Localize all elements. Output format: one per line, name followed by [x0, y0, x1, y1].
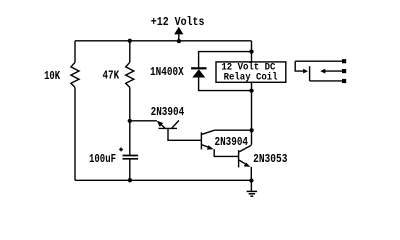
relay terminal square bottom: [342, 79, 346, 83]
svg-text:1N400X: 1N400X: [150, 65, 184, 79]
junction dot node A: [128, 119, 132, 123]
relay coil box: [216, 62, 286, 82]
junction dot bottom rail / ground: [249, 178, 253, 182]
wire Q2 collector to right rail: [215, 129, 252, 131]
junction dot diode bottom / right rail: [249, 88, 253, 92]
relay contact bottom line: [310, 80, 343, 82]
transistor Q1 2N3904 base bar: [159, 127, 178, 129]
junction dot capacitor / bottom rail: [128, 178, 132, 182]
transistor Q2 emitter arrowhead: [207, 145, 214, 149]
transistor Q3 collector line: [239, 145, 251, 152]
wire Q2 emitter to Q3 base: [214, 149, 238, 156]
transistor Q3 2N3053 base bar: [238, 150, 240, 167]
junction dot diode top / right rail: [249, 49, 253, 53]
svg-text:2N3904: 2N3904: [215, 135, 249, 149]
relay terminal square top: [342, 59, 346, 63]
svg-text:Relay Coil: Relay Coil: [224, 71, 278, 83]
wire left vertical upper (to 10K): [74, 41, 76, 63]
wire +12V arrow stem: [178, 34, 180, 41]
+12V arrowhead: [174, 27, 183, 35]
svg-text:47K: 47K: [103, 69, 120, 83]
relay contact middle line: [325, 70, 342, 72]
wire capacitor top lead: [129, 121, 131, 155]
transistor Q2 emitter line: [202, 145, 209, 148]
transistor Q2 2N3904 base bar: [200, 132, 202, 149]
diode D1 1N400X cathode bar: [191, 67, 206, 69]
relay contact armature bar: [309, 66, 311, 81]
transistor Q2 collector line: [202, 130, 215, 134]
svg-text:10K: 10K: [44, 69, 61, 83]
resistor R1 10K: [71, 62, 79, 87]
wire left vertical lower: [74, 87, 76, 180]
wire Q1 base lead to Q2 base: [168, 128, 201, 140]
svg-text:+12 Volts: +12 Volts: [151, 15, 205, 29]
junction dot top rail / +12 stem: [177, 39, 181, 43]
resistor R2 47K: [126, 62, 134, 87]
transistor Q1 collector line: [172, 120, 179, 128]
wire diode branch bottom: [199, 77, 252, 90]
wire top +12V rail: [75, 40, 252, 42]
relay terminal square middle: [342, 69, 346, 73]
svg-text:2N3053: 2N3053: [253, 152, 287, 166]
capacitor C1 100uF plates: [123, 156, 139, 159]
diode D1 1N400X triangle: [192, 69, 205, 77]
ground symbol bars: [247, 191, 258, 196]
relay contact bracket arrowhead: [303, 69, 308, 74]
relay contact bracket: [295, 61, 303, 71]
wire ground stub: [250, 181, 252, 191]
relay contact top line: [295, 60, 342, 62]
wire 47K branch upper: [129, 41, 131, 63]
svg-text:100uF: 100uF: [89, 152, 116, 166]
relay contact middle arrowhead: [320, 69, 325, 74]
wire right vertical (+12 rail to Q3 collector): [251, 41, 253, 145]
transistor Q1 emitter line: [158, 122, 165, 128]
transistor Q3 emitter arrowhead: [244, 162, 251, 167]
wire 47K branch lower to node A: [129, 87, 131, 121]
wire bottom rail: [75, 179, 251, 181]
transistor Q3 emitter line: [239, 160, 245, 164]
junction dot Q2 collector / right rail: [249, 128, 253, 132]
svg-text:2N3904: 2N3904: [151, 105, 185, 119]
wire Q3 emitter drop to bottom rail: [250, 167, 252, 181]
transistor Q1 emitter arrowhead: [157, 121, 163, 127]
wire capacitor bottom lead: [129, 159, 131, 180]
capacitor plus sign: [119, 148, 123, 152]
wire diode branch top: [199, 52, 252, 68]
junction dot top rail / 47K: [128, 39, 132, 43]
wire node A to Q1 emitter: [130, 120, 157, 122]
